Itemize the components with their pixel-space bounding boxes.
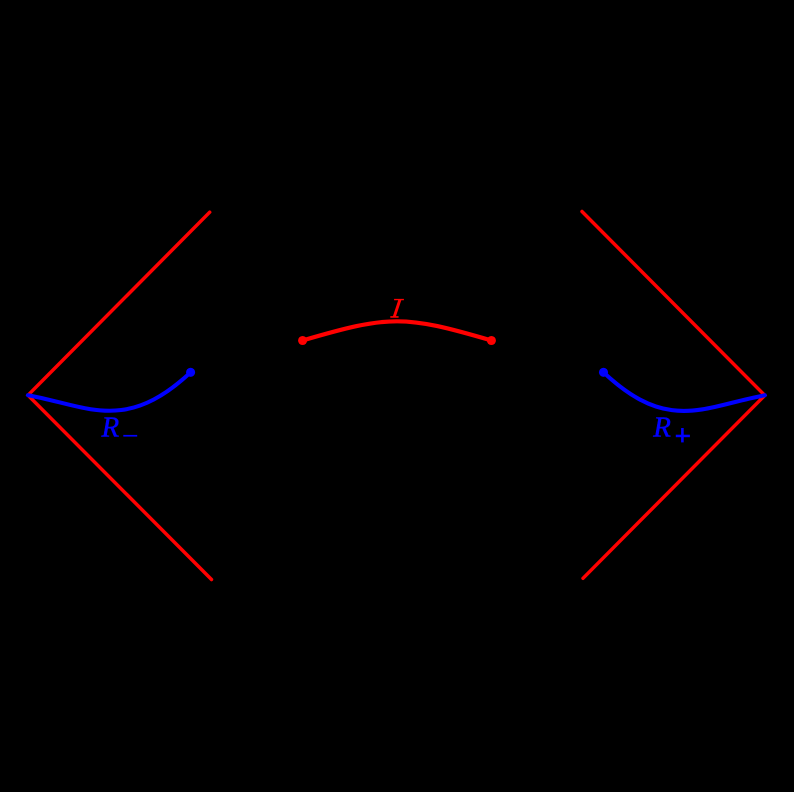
svg-text:R: R — [101, 411, 120, 443]
svg-text:R: R — [652, 411, 671, 443]
